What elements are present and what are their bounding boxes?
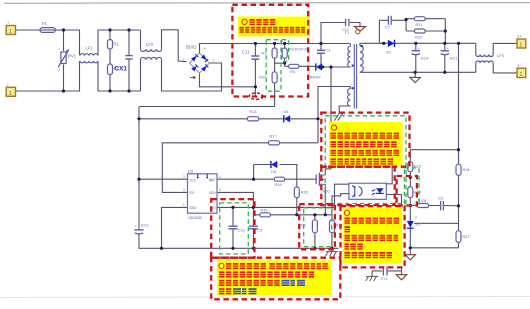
- wire secondary top pin to D2: [360, 42, 388, 44]
- note 1 text line 1: [242, 19, 275, 25]
- ground feedback triangle: [405, 255, 415, 260]
- wire fb RC row: [410, 205, 458, 207]
- wire D2 cathode rail: [395, 42, 476, 44]
- wire sec gnd hidden drop visible part: [401, 267, 403, 274]
- optocoupler U2: [349, 183, 386, 199]
- red box 7 divider: [397, 176, 417, 206]
- inductor LF1 lower winding: [80, 61, 98, 63]
- wire varistor branch bottom: [63, 65, 65, 92]
- chassis ground bottom middle: [366, 276, 379, 281]
- wire LF3 lower stubs: [476, 63, 517, 73]
- wire sense R20 stubs: [314, 215, 316, 249]
- svg-text:D8: D8: [271, 170, 276, 174]
- capacitor C8 fb: [438, 197, 443, 211]
- svg-text:R28: R28: [419, 199, 426, 203]
- wire snubber R21 row: [406, 18, 445, 20]
- node R2 bottom: [108, 89, 111, 92]
- wire snubber C7 to node: [391, 19, 406, 21]
- svg-text:VCC: VCC: [190, 179, 197, 183]
- resistor R16: [456, 164, 469, 175]
- svg-text:1: 1: [520, 72, 523, 78]
- svg-text:2: 2: [183, 175, 185, 179]
- svg-text:EC4: EC4: [421, 57, 428, 61]
- wire LF1 lower right stub to bottom rail: [98, 61, 141, 91]
- node EC4 bottom: [414, 71, 417, 74]
- svg-text:LF3: LF3: [497, 53, 505, 58]
- svg-text:D2: D2: [387, 51, 392, 55]
- resistor R4: [289, 64, 300, 74]
- wire sec gnd stub: [414, 72, 416, 77]
- red box 5 sense resistors: [299, 204, 335, 249]
- node sense r20 bottom: [313, 247, 316, 250]
- chassis ground under sense resistors: [326, 252, 339, 257]
- T1 polarity dots: [352, 65, 354, 67]
- diode D5: [308, 63, 323, 79]
- resistor R28 fb: [417, 199, 428, 208]
- node C12 C13 tap: [319, 42, 322, 45]
- resistor R14: [408, 187, 421, 198]
- node r26 bottom: [295, 213, 298, 216]
- wire zd2 bottom: [409, 229, 411, 248]
- svg-text:CX1: CX1: [115, 66, 128, 73]
- node CX1 top: [127, 28, 130, 31]
- wire opto collector link: [335, 184, 349, 207]
- svg-text:EC1: EC1: [450, 57, 457, 61]
- node R23 top: [283, 42, 286, 45]
- yellow note 2 opto supply: [329, 122, 403, 166]
- wire opto emitter link: [332, 194, 349, 215]
- node C10 top: [231, 206, 234, 209]
- resistor R23: [282, 48, 287, 58]
- wire aux top pin to x318: [318, 87, 351, 143]
- node vcc d6 row left: [137, 117, 140, 120]
- wire CX1 bottom stub: [128, 59, 130, 91]
- T1 aux winding: [348, 89, 351, 106]
- zener ZD2: [407, 216, 421, 229]
- wire snubber right vertical: [444, 19, 446, 44]
- note 2 text lines: [331, 125, 400, 165]
- node sense r20 top: [313, 213, 316, 216]
- node R3 top: [273, 42, 276, 45]
- earth ground for C12: [355, 27, 366, 32]
- wire IC gnd pin down: [162, 207, 188, 248]
- node C13 bottom: [321, 66, 324, 69]
- resistor R1: [108, 40, 120, 50]
- node varistor bottom: [62, 89, 65, 92]
- node gnd bus ic: [160, 247, 163, 250]
- svg-text:1: 1: [520, 43, 523, 49]
- resistor R13: [247, 110, 258, 121]
- wire feedback tap vertical: [458, 43, 460, 164]
- wire aux return diagonal a: [334, 114, 339, 121]
- ground secondary bottom triangle: [396, 275, 406, 280]
- wire aux return diagonal b: [338, 114, 343, 121]
- svg-text:T1: T1: [345, 30, 350, 35]
- wire chassis2 stub: [371, 271, 373, 276]
- svg-text:OB2530: OB2530: [188, 215, 203, 220]
- capacitor EC3 electrolytic: [134, 224, 148, 234]
- red box 6 right note: [341, 206, 405, 267]
- inductor LF1 upper winding: [80, 54, 98, 56]
- svg-text:1: 1: [183, 58, 185, 62]
- capacitor C10: [229, 226, 245, 232]
- svg-text:RI: RI: [212, 206, 215, 210]
- svg-text:1: 1: [9, 91, 12, 97]
- node divider top: [457, 148, 460, 151]
- wire feedback vertical mid: [458, 175, 460, 230]
- wire sense R25 stubs: [331, 215, 333, 249]
- green box optocoupler: [325, 116, 406, 204]
- wire R3 R24 mid link: [275, 58, 285, 72]
- svg-text:CY1: CY1: [381, 277, 388, 281]
- wire N bottom rail J2 to LF1: [16, 61, 80, 91]
- wire gnd3 stub: [409, 248, 411, 255]
- wire fuse to node A: [56, 29, 64, 31]
- sheet border bottom: [0, 297, 530, 298]
- node zener tap: [252, 178, 255, 181]
- node EC4 top: [414, 42, 417, 45]
- wire IC mid pin jog: [217, 192, 253, 207]
- wire LF3 upper stubs: [476, 43, 517, 54]
- svg-text:R3 R24>2M: R3 R24>2M: [289, 48, 309, 52]
- capacitor EC1 electrolytic: [441, 46, 458, 61]
- wire LF1 upper right stub to top rail: [98, 30, 141, 56]
- terminal J4 out minus: [517, 63, 526, 79]
- T1 secondary winding: [360, 46, 363, 72]
- svg-text:+: +: [204, 46, 207, 51]
- svg-text:R13: R13: [250, 110, 257, 114]
- text stroke texture overlay: [219, 21, 400, 292]
- diode D6: [284, 110, 291, 122]
- red ellipse B- crossing: [249, 93, 263, 99]
- node C11 bottom: [254, 85, 257, 88]
- transformer T1: [345, 30, 364, 109]
- T1 red mark: [356, 30, 360, 34]
- svg-text:2: 2: [415, 216, 417, 220]
- wire opto led cathode to sec gnd: [386, 195, 401, 207]
- svg-text:D6: D6: [284, 110, 289, 114]
- green box startup resistor R23: [282, 40, 289, 62]
- resistor R18: [274, 177, 284, 187]
- inductor LF3 upper winding: [476, 55, 493, 57]
- node snubber split: [405, 18, 408, 21]
- wire VCC line D6 row: [139, 118, 318, 120]
- resistor R27: [456, 231, 469, 243]
- wire bridge minus output: [200, 73, 256, 87]
- wire snubber node vertical: [405, 19, 407, 31]
- svg-text:1+: 1+: [517, 34, 522, 39]
- node R1 top: [108, 28, 111, 31]
- wire CX1 top stub: [128, 30, 130, 56]
- wire EC3 below to gnd bus: [139, 233, 339, 248]
- inductor LF2 upper winding: [141, 49, 162, 51]
- node fb gnd: [409, 246, 412, 249]
- capacitor C11: [242, 50, 259, 60]
- green box primary fb caps: [220, 203, 249, 254]
- wire R23 top stub: [284, 44, 286, 49]
- note 1 text line 2: [240, 27, 306, 33]
- wire L top rail from J1 to fuse: [16, 29, 41, 31]
- wire C9 branch: [252, 207, 254, 248]
- resistor R20 sense: [299, 220, 317, 233]
- terminal J1: [6, 20, 15, 36]
- svg-text:R26: R26: [301, 191, 308, 195]
- wire C12 branch: [321, 23, 345, 44]
- wire LF2 upper left feed: [140, 30, 142, 49]
- capacitor C7: [385, 16, 391, 30]
- wire chassis gnd stub under sense: [331, 248, 333, 251]
- wire LF2 upper right stub to bridge: [162, 30, 187, 62]
- wire R17 row: [162, 143, 318, 193]
- green box divider R15 R14: [404, 168, 419, 205]
- svg-text:2: 2: [213, 59, 215, 63]
- terminal J3 out plus: [517, 34, 526, 49]
- node C9 bottom: [252, 247, 255, 250]
- node snubber merge: [444, 29, 447, 32]
- svg-text:C8: C8: [438, 197, 443, 201]
- svg-text:1: 1: [9, 29, 12, 35]
- yellow note 4 fb cap: [217, 260, 332, 295]
- wire varistor branch top: [63, 30, 65, 51]
- svg-text:ZD: ZD: [416, 223, 421, 227]
- node source join: [324, 213, 327, 216]
- wire C13 stub top: [320, 44, 322, 51]
- svg-text:R22: R22: [415, 35, 422, 39]
- svg-text:C9: C9: [258, 229, 263, 233]
- wire zener branch vertical: [253, 165, 255, 180]
- node snubber tap: [382, 42, 385, 45]
- resistor R17: [268, 135, 279, 145]
- wire R1 top stub: [109, 30, 111, 40]
- svg-text:GND: GND: [190, 206, 198, 210]
- svg-text:C11: C11: [242, 50, 250, 55]
- resistor R19: [260, 209, 271, 217]
- note 4 text lines: [219, 263, 328, 294]
- svg-text:C3: C3: [326, 49, 331, 53]
- svg-text:FB: FB: [190, 191, 194, 195]
- red box 1 startup circuit: [232, 5, 308, 97]
- wire IC fb row to opto: [217, 206, 335, 208]
- svg-text:SEN: SEN: [209, 191, 216, 195]
- node divider mid: [409, 176, 412, 179]
- wire R1 to R2: [109, 49, 111, 64]
- resistor R15: [408, 162, 421, 172]
- svg-text:RV1: RV1: [68, 54, 77, 59]
- red box 3 fb caps: [211, 199, 254, 258]
- wire R3 top stub: [274, 44, 276, 49]
- wire zener row: [254, 165, 297, 188]
- node fb tap top: [457, 42, 460, 45]
- wire divider top row: [410, 150, 458, 162]
- ground secondary rail: [410, 77, 420, 82]
- svg-text:C7: C7: [385, 26, 390, 30]
- wire feedback vertical low: [410, 242, 458, 247]
- svg-text:3: 3: [183, 188, 185, 192]
- capacitor CY1: [381, 266, 388, 281]
- capacitor C13: [317, 49, 330, 54]
- resistor R3: [261, 48, 277, 58]
- wire R4 to D5 cathode: [299, 65, 316, 67]
- capacitor C9: [249, 226, 262, 232]
- svg-text:2: 2: [58, 68, 60, 72]
- mosfet Q1: [316, 173, 329, 194]
- red box 4 bottom note: [211, 258, 340, 300]
- node D6 vcc join: [316, 117, 319, 120]
- svg-text:EC3: EC3: [141, 224, 148, 228]
- wire drain vertical: [325, 67, 331, 175]
- diode D2 output rectifier: [387, 40, 395, 55]
- wire C12 to earth: [350, 23, 360, 27]
- wire C10 branch: [232, 207, 234, 248]
- fuse F1: [40, 21, 56, 32]
- yellow note 3 current protect: [343, 208, 403, 264]
- wire R23 bottom jog to R4: [285, 58, 289, 66]
- wire R2 bottom stub: [109, 75, 111, 92]
- svg-text:4: 4: [219, 175, 221, 179]
- node sense r25 bottom: [330, 247, 333, 250]
- wire mosfet source down: [324, 184, 326, 215]
- svg-text:BD01: BD01: [186, 45, 197, 50]
- svg-text:6: 6: [219, 188, 221, 192]
- resistor R25 sense: [330, 220, 343, 233]
- zener ZD1: [271, 161, 277, 174]
- resistor R22: [414, 29, 425, 39]
- wire secondary bottom rail: [360, 71, 476, 73]
- wire gate row: [217, 178, 316, 180]
- varistor RV1: [58, 47, 77, 72]
- node C11 top: [254, 42, 257, 45]
- wire R24 bottom to startup feed: [139, 83, 275, 107]
- red box 2 annotation opto: [321, 113, 409, 167]
- inductor LF2 lower winding: [141, 57, 162, 59]
- svg-text:R4: R4: [290, 70, 295, 74]
- svg-text:F1: F1: [42, 21, 48, 26]
- svg-text:R19: R19: [261, 209, 268, 213]
- wire IC pin1 feed: [139, 178, 188, 180]
- capacitor CX1: [115, 56, 133, 73]
- green box sense resistors: [304, 208, 332, 247]
- bridge rectifier BD01: [183, 45, 215, 79]
- green box startup resistors R3 R24: [266, 40, 281, 91]
- svg-text:R17: R17: [270, 135, 277, 139]
- wire LF2 lower left feed: [140, 60, 142, 91]
- svg-text:U3: U3: [188, 168, 194, 173]
- IC U3: [183, 168, 221, 220]
- wire LF2 lower right stub to bridge AC2: [162, 60, 222, 91]
- wire aux bottom pin: [339, 106, 350, 114]
- wire C11 top stub: [254, 44, 256, 57]
- yellow note 1 startup: [238, 17, 310, 37]
- svg-text:LF1: LF1: [86, 46, 94, 51]
- node CX1 bottom: [127, 89, 130, 92]
- svg-text:R27: R27: [463, 235, 470, 239]
- resistor R26 gate pulldown: [294, 187, 307, 198]
- wire snubber R22 row: [406, 30, 445, 32]
- red box 2b opto lower: [321, 167, 394, 205]
- svg-text:1: 1: [183, 203, 185, 207]
- wire B- stub into red box edge: [254, 87, 256, 97]
- svg-text:R21: R21: [416, 23, 423, 27]
- node fb zd top: [409, 204, 412, 207]
- node C10 bottom: [231, 247, 234, 250]
- wire VCC node vertical: [138, 107, 140, 230]
- wire EC1 stubs: [444, 43, 446, 72]
- wire EC4 stubs: [415, 43, 417, 72]
- wire R15 to R14: [409, 172, 411, 187]
- node EC1 top: [443, 42, 446, 45]
- svg-text:OUT: OUT: [209, 178, 216, 182]
- resistor R2: [108, 64, 120, 75]
- wire R19 row: [253, 214, 332, 216]
- node ic pin1 tap: [137, 178, 140, 181]
- wire gate pulldown bottom: [296, 198, 298, 215]
- wire bridge plus output to B+ rail: [200, 44, 351, 54]
- svg-text:R1: R1: [114, 42, 120, 47]
- svg-text:R16: R16: [463, 168, 470, 172]
- capacitor C12: [342, 19, 349, 32]
- wire R14 bottom node: [409, 198, 411, 221]
- svg-text:C10: C10: [238, 229, 245, 233]
- svg-text:1: 1: [58, 47, 60, 51]
- T1 core: [353, 44, 355, 109]
- U3 top pin stubs: [198, 174, 207, 177]
- sheet border top: [4, 2, 530, 5]
- svg-text:R18: R18: [275, 183, 282, 187]
- wire node A to LF1 upper left stub: [64, 30, 80, 56]
- terminal J2: [6, 82, 15, 97]
- wire snubber left leg: [379, 20, 388, 43]
- wire zd2 cathode link: [414, 222, 459, 224]
- svg-text:LF2: LF2: [146, 42, 154, 47]
- node fuse junction: [62, 28, 65, 31]
- wire opto led anode up: [386, 166, 392, 183]
- inductor LF3 lower winding: [476, 61, 493, 63]
- svg-text:1N4007: 1N4007: [308, 76, 321, 80]
- wire D5 anode to drain node: [322, 66, 351, 68]
- wire C11 bottom stub: [254, 59, 256, 87]
- note 3 text lines: [344, 210, 399, 258]
- node R23 bottom: [283, 62, 286, 65]
- capacitor EC4 electrolytic: [412, 46, 429, 61]
- node EC1 bottom: [443, 71, 446, 74]
- resistor R21: [414, 17, 425, 27]
- node drain junction: [329, 65, 332, 68]
- T1 primary winding: [348, 46, 351, 67]
- wire CY1 row: [372, 270, 401, 272]
- resistor R24: [259, 72, 277, 83]
- node fb rc right: [457, 204, 460, 207]
- node C9 top: [252, 206, 255, 209]
- wire C13 stub bottom: [320, 53, 322, 67]
